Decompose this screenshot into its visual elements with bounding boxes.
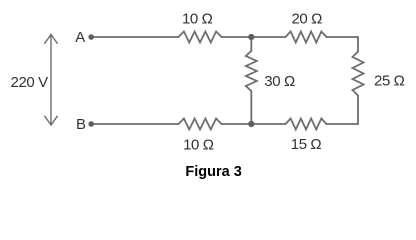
svg-text:A: A [75, 29, 85, 46]
svg-text:220 V: 220 V [11, 74, 49, 91]
svg-text:15 Ω: 15 Ω [291, 136, 322, 153]
svg-text:Figura 3: Figura 3 [185, 164, 241, 180]
wire: top junction down to R3 [250, 37, 252, 51]
wire: R3 to bottom junction [250, 91, 252, 124]
wire: R4 to bottom-right corner [357, 96, 359, 125]
node A terminal dot [88, 34, 94, 40]
svg-text:30 Ω: 30 Ω [264, 73, 295, 90]
wire: R6 to bottom-right corner [327, 123, 359, 125]
svg-text:10 Ω: 10 Ω [182, 11, 213, 28]
resistor R5 10 ohm bottom [179, 119, 222, 130]
voltage source V1 arrow 220 V [45, 35, 58, 126]
junction dot bottom [248, 121, 254, 127]
wire: R5 to bottom junction [222, 123, 252, 125]
wire: top junction to R2 [251, 36, 285, 38]
svg-text:25 Ω: 25 Ω [374, 73, 405, 90]
wire: top-right corner down to R4 [357, 37, 359, 52]
resistor R2 20 ohm [286, 32, 327, 43]
wire top: node A to R1 [91, 36, 178, 38]
wire: R1 to top junction [222, 36, 252, 38]
wire: bottom junction to R6 [251, 123, 285, 125]
resistor R3 30 ohm vertical [246, 51, 257, 91]
resistor R1 10 ohm top [179, 32, 222, 43]
svg-text:10 Ω: 10 Ω [183, 136, 214, 153]
wire bottom: node B to R5 [91, 123, 178, 125]
resistor R4 25 ohm vertical [353, 52, 364, 96]
wire: R2 to top-right corner [327, 36, 359, 38]
svg-text:20 Ω: 20 Ω [291, 11, 322, 28]
svg-text:B: B [76, 116, 86, 133]
resistor R6 15 ohm [286, 119, 327, 130]
node B terminal dot [88, 121, 94, 127]
junction dot top [248, 34, 254, 40]
